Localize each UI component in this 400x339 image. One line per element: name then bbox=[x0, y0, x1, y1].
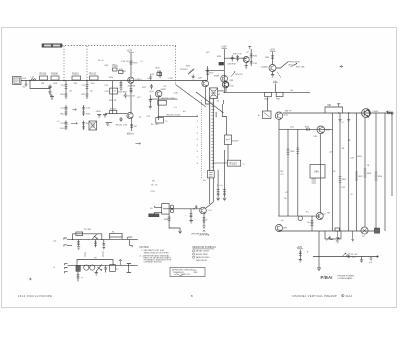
ground delay col r1 bbox=[216, 198, 220, 201]
resistor R1017 col2 row1 bbox=[82, 81, 89, 100]
junction dot c bbox=[86, 80, 87, 81]
junction c bus bbox=[224, 92, 225, 93]
label DELAY LINE boxed bbox=[149, 214, 159, 217]
svg-text:DATE 4-12: DATE 4-12 bbox=[181, 273, 190, 276]
svg-text:PRECISION: PRECISION bbox=[196, 260, 208, 262]
terminal row2 left bbox=[65, 264, 68, 274]
transistor Q1212 arrow bbox=[96, 265, 102, 272]
shield dotted delay bbox=[201, 100, 203, 178]
resistor R1015c bbox=[119, 81, 122, 91]
svg-text:R+ C+: R+ C+ bbox=[217, 185, 224, 187]
transistor Q1048 bbox=[362, 109, 371, 118]
diode CR1041 marks bbox=[386, 110, 390, 113]
svg-text:CR40: CR40 bbox=[373, 111, 379, 113]
wire c top row bbox=[224, 57, 247, 59]
ground stage2 gnd bbox=[149, 103, 152, 109]
marker diamond top right bbox=[340, 66, 343, 68]
terminal row1 left bbox=[64, 238, 67, 246]
transistor Q1034 bbox=[222, 81, 228, 87]
varistor arrow bbox=[231, 72, 235, 77]
svg-text:TK 330: TK 330 bbox=[84, 229, 92, 231]
svg-text:R1006: R1006 bbox=[40, 74, 47, 76]
transistor Q1033 bbox=[221, 75, 228, 82]
resistor on bus R1135 bbox=[335, 228, 339, 231]
capacitor C1137 bbox=[336, 231, 339, 243]
resistor stack row3 col1 bbox=[61, 121, 68, 131]
capacitor C1011 bbox=[112, 66, 119, 71]
resistor stack row3 col2 bbox=[82, 121, 85, 131]
svg-text:R18 453: R18 453 bbox=[118, 92, 127, 94]
terminal row2 right bbox=[127, 264, 134, 273]
resistor R1053 col365 bbox=[364, 169, 372, 177]
svg-text:R1016 1.5K: R1016 1.5K bbox=[124, 96, 136, 98]
svg-text:CURRENT SUP BD.: CURRENT SUP BD. bbox=[144, 262, 163, 264]
wire col v392 bbox=[391, 113, 393, 196]
resistor R1216 below bbox=[77, 271, 84, 281]
resistor R1024 bbox=[157, 71, 162, 76]
junction circle small bbox=[298, 216, 302, 220]
capacitor col348 under W1 bbox=[347, 120, 350, 121]
svg-text:C13 .05: C13 .05 bbox=[121, 61, 129, 63]
resistor R1130 drop bbox=[308, 216, 314, 231]
svg-text:R1012: R1012 bbox=[90, 74, 97, 76]
wire right main W1 bbox=[283, 112, 392, 114]
resistor R1204 below bbox=[77, 239, 80, 246]
wire stage2 vert bbox=[158, 96, 160, 120]
wire delay right rail bbox=[222, 100, 226, 135]
label legend row1 bbox=[193, 250, 210, 253]
ground R1128 gnd bbox=[169, 224, 182, 234]
shield label box INPUT ATTEN bbox=[42, 44, 62, 47]
wire row1 main bbox=[67, 239, 138, 245]
svg-text:+5V: +5V bbox=[206, 52, 210, 54]
wire e collector right bbox=[276, 61, 289, 68]
wire e4 drop to box bbox=[267, 110, 269, 111]
junction dots row1 bbox=[72, 239, 73, 240]
resistor R1041 below bus bbox=[276, 92, 283, 100]
wire right W2 bbox=[279, 128, 333, 130]
terminal row1 right bbox=[128, 237, 133, 247]
resistor R1044 on W2 bbox=[305, 127, 310, 131]
marker plus bottom bbox=[29, 278, 32, 281]
resistor R1203 loop2 bbox=[110, 231, 122, 237]
resistor R1036 bbox=[271, 56, 274, 59]
svg-text:M6 TP: M6 TP bbox=[285, 110, 292, 112]
shield dashed drop 3 bbox=[175, 46, 177, 85]
inductor L1014 bbox=[31, 79, 36, 81]
wire delay q-line bbox=[215, 112, 217, 117]
transistor Q1024 bbox=[149, 91, 162, 98]
resistor R1021 bbox=[110, 109, 118, 114]
wire col v348 bbox=[348, 113, 350, 231]
wire delay col r2 bbox=[224, 150, 226, 198]
wire e drop x267 bbox=[267, 97, 269, 110]
wire col v340 bbox=[339, 113, 341, 231]
svg-text:Q1036: Q1036 bbox=[261, 67, 268, 69]
svg-text:SEMICONDUCTOR TYPES: SEMICONDUCTOR TYPES bbox=[144, 252, 170, 254]
testpoint TP1032 bbox=[337, 104, 340, 107]
svg-text:R37 10K: R37 10K bbox=[296, 67, 305, 69]
resistor R1128 bbox=[164, 214, 171, 224]
resistor R1201 on loop bbox=[76, 229, 92, 235]
resistor R1051 col340 bbox=[339, 177, 347, 183]
svg-text:R19 1K: R19 1K bbox=[109, 100, 117, 102]
svg-text:R+ C+: R+ C+ bbox=[98, 60, 105, 62]
svg-text:+12V: +12V bbox=[127, 50, 133, 53]
svg-text:B1027: B1027 bbox=[232, 141, 239, 143]
shield dashed outline top bbox=[62, 45, 176, 47]
svg-text:2N39: 2N39 bbox=[161, 89, 167, 91]
terminal pickoff stubs bbox=[154, 206, 161, 214]
wire col v288 bbox=[287, 129, 289, 216]
connector J1014 input box bbox=[13, 77, 21, 85]
box U1046 bbox=[310, 165, 325, 179]
transistor Q1045 bbox=[317, 126, 330, 134]
wire output row y256 bbox=[313, 256, 379, 258]
wire stage2 out row bbox=[150, 98, 177, 100]
arrow bracket a bbox=[326, 237, 330, 241]
resistor R1027 top bbox=[206, 66, 209, 80]
wire col v320 bbox=[319, 134, 321, 213]
wire stage1 emitter bbox=[130, 83, 132, 112]
svg-text:R34 1K: R34 1K bbox=[236, 74, 244, 76]
svg-text:ALLEN TRIM: ALLEN TRIM bbox=[196, 253, 208, 256]
label titleblock right bbox=[292, 294, 353, 297]
capacitor stack c2 row2 col1 bbox=[61, 105, 68, 116]
svg-text:R1025 L1025: R1025 L1025 bbox=[162, 98, 176, 100]
transistor Q1031 bbox=[243, 57, 249, 63]
wire B1027 down bbox=[227, 145, 229, 161]
ground Q1036 gnd bbox=[271, 72, 274, 78]
svg-text:4314 OSCILLOSCOPE: 4314 OSCILLOSCOPE bbox=[18, 295, 52, 298]
box R1018 left bbox=[97, 115, 107, 118]
shield dashed drop 2 bbox=[86, 46, 88, 80]
ground stage2 gnd2 bbox=[192, 75, 195, 79]
wire bottom bus y231 bbox=[278, 230, 380, 232]
shield dashed drop 1 bbox=[63, 46, 65, 80]
transistor Q1027 bbox=[202, 80, 209, 87]
wire stage1 rail bbox=[130, 53, 132, 77]
wire mid bus y92 bbox=[224, 91, 311, 93]
capacitor C1213 bbox=[104, 265, 107, 272]
svg-text:+12V: +12V bbox=[221, 46, 227, 49]
transistor Q1211 bbox=[90, 265, 95, 270]
svg-text:TP1027: TP1027 bbox=[229, 162, 238, 165]
transistor Q1201 flat bbox=[92, 234, 98, 240]
svg-text:+2V: +2V bbox=[285, 192, 289, 194]
resistor R1129 bbox=[185, 209, 192, 221]
resistor R1127 bbox=[203, 214, 208, 226]
junction dots stage2 bbox=[207, 69, 209, 71]
capacitor C1023 bbox=[150, 84, 153, 89]
svg-text:+R20: +R20 bbox=[96, 111, 102, 113]
svg-text:R1008: R1008 bbox=[51, 74, 58, 76]
connector blob dark bbox=[374, 228, 379, 233]
svg-text:R31 C31: R31 C31 bbox=[233, 54, 242, 56]
junction dot b bbox=[63, 80, 64, 81]
stamp box bbox=[170, 268, 205, 277]
wire delay box out bbox=[218, 90, 224, 92]
wire col v376 bbox=[375, 113, 377, 228]
svg-text:R1026 C1026: R1026 C1026 bbox=[167, 114, 181, 116]
transistor Q1023 bbox=[127, 113, 143, 119]
capacitor C1021 bbox=[116, 117, 128, 127]
capacitor C1017 bbox=[124, 93, 127, 99]
capacitor C1129 pair bbox=[193, 206, 197, 210]
svg-text:1.5K: 1.5K bbox=[174, 93, 179, 95]
transistor Q1133 bbox=[316, 213, 326, 220]
svg-text:Q1014: Q1014 bbox=[135, 79, 142, 81]
wire col v356 bbox=[356, 113, 358, 231]
resistor delay col r2 bbox=[223, 190, 226, 195]
wire v352 drop bbox=[351, 231, 354, 242]
capacitor C1022s bbox=[149, 75, 152, 81]
capacitor stack c2 row2 col2 bbox=[82, 105, 91, 116]
resistor R1052 col356 bbox=[355, 172, 363, 180]
junction dot a bbox=[29, 80, 30, 81]
ground Q1127 gnd bbox=[202, 226, 205, 232]
svg-text:J10: J10 bbox=[15, 80, 20, 83]
bracket below bus bbox=[325, 231, 341, 239]
resistor R1031 bbox=[233, 54, 242, 62]
svg-text:TP1024: TP1024 bbox=[180, 69, 188, 71]
transistor Q1043 bbox=[275, 112, 288, 119]
ground R1129 gnd bbox=[189, 221, 193, 224]
ground stage1 gnd pair bbox=[106, 123, 113, 126]
svg-text:P.O: P.O bbox=[352, 257, 356, 259]
capacitor C1206 below bbox=[102, 239, 105, 250]
resistor below U1046 bbox=[312, 179, 317, 183]
ground C1009 gnd bbox=[48, 92, 51, 94]
wire row1 loop2 bbox=[110, 235, 122, 239]
wire row2 loop bbox=[77, 260, 113, 266]
box C1214 bbox=[110, 265, 120, 272]
svg-text:R1010: R1010 bbox=[72, 74, 79, 76]
resistor R1032 bbox=[250, 49, 258, 66]
resistor ticks col288 bbox=[287, 149, 290, 154]
svg-text:2N3904: 2N3904 bbox=[128, 86, 136, 88]
loop M6 bbox=[325, 104, 343, 113]
ground Q1212 gnd bbox=[95, 271, 98, 275]
arrow output a bbox=[342, 253, 346, 256]
svg-text:CHANNEL VERTICAL PREAMP: CHANNEL VERTICAL PREAMP bbox=[292, 295, 337, 298]
wire col v279 bbox=[278, 119, 280, 216]
svg-text:TP36 2N39: TP36 2N39 bbox=[289, 62, 301, 64]
stub left low bbox=[330, 236, 333, 239]
resistor R1006 bbox=[40, 76, 48, 80]
wire c mid row bbox=[205, 69, 224, 71]
junction dots W1 bbox=[338, 112, 339, 113]
svg-text:1A 14: 1A 14 bbox=[346, 295, 353, 298]
transistor Q1036 bbox=[261, 65, 276, 72]
svg-text:TP+: TP+ bbox=[152, 181, 157, 183]
resistor R1054 col376 bbox=[375, 172, 383, 180]
inductor L1030 dark box bbox=[219, 62, 224, 65]
label legend row2 bbox=[193, 253, 208, 256]
ground R1204 gnd bbox=[77, 247, 80, 250]
svg-text:R+ 75: R+ 75 bbox=[152, 185, 159, 187]
box C1126 below wire bbox=[156, 118, 164, 124]
svg-text:CONN BOARD: CONN BOARD bbox=[338, 277, 353, 280]
wire stage1 base row bbox=[105, 113, 127, 115]
resistor delay col r1 bbox=[217, 190, 220, 195]
wire v319 low bbox=[318, 231, 320, 268]
delay line taps bbox=[211, 103, 214, 167]
resistor R1012 bbox=[90, 76, 99, 80]
svg-text:C1011: C1011 bbox=[112, 66, 119, 68]
label TP1027 boxed bbox=[213, 160, 240, 166]
box R1019 left bbox=[104, 81, 127, 114]
label Y mark bbox=[119, 259, 121, 265]
resistor R1205 below bbox=[94, 239, 97, 247]
svg-text:METAL OXIDE: METAL OXIDE bbox=[196, 250, 210, 253]
box delay termination bbox=[207, 171, 214, 178]
svg-text:U46: U46 bbox=[314, 170, 319, 174]
svg-text:C30 R30: C30 R30 bbox=[227, 64, 236, 66]
label legend title bbox=[192, 247, 216, 249]
resistor R1013 rail bbox=[129, 61, 138, 65]
terminal right edge circle bbox=[391, 112, 393, 114]
ground delay col r2 bbox=[223, 198, 227, 201]
diode CR1042 right edge bbox=[387, 112, 391, 114]
svg-text:NOTES:: NOTES: bbox=[140, 245, 150, 249]
box pickoff bbox=[162, 204, 174, 215]
ticks R1016 bbox=[130, 89, 133, 92]
resistor R1011 bbox=[119, 69, 124, 74]
box B1027 bbox=[225, 135, 240, 145]
resistor R1026 slant bbox=[188, 69, 194, 75]
box attenuator A1 crossed bbox=[89, 121, 97, 130]
resistor R1015 col1 row1 bbox=[61, 81, 68, 100]
wire col v385 bbox=[384, 113, 386, 231]
resistor ticks col298 bbox=[296, 148, 299, 153]
resistor R1138 bbox=[299, 250, 309, 260]
ground v319 gnd bbox=[317, 268, 321, 271]
svg-text:2N39: 2N39 bbox=[214, 76, 220, 78]
wire col v332 bbox=[332, 113, 334, 231]
circle output z bbox=[348, 256, 350, 258]
shield diagonal A bbox=[176, 85, 206, 107]
resistor R1022 emitter bbox=[130, 119, 137, 131]
wire feedback loop bbox=[30, 81, 50, 89]
ground R1138 gnd bbox=[299, 260, 302, 263]
ground output gnd bbox=[360, 257, 363, 263]
wire row1 loop bbox=[73, 234, 102, 240]
capacitor col340 under W1 bbox=[338, 120, 341, 121]
transistor Q1127 bbox=[200, 207, 213, 214]
arrow bracket b bbox=[336, 238, 340, 242]
svg-text:R+ +5V: R+ +5V bbox=[151, 124, 159, 126]
svg-text:P/BAI: P/BAI bbox=[321, 275, 333, 280]
transistor Q1136 crt bbox=[361, 227, 368, 238]
svg-text:+12V: +12V bbox=[270, 49, 276, 52]
wire main input bus y80.5 bbox=[21, 80, 207, 82]
wire e dashed emitter bbox=[277, 72, 281, 78]
resistor R1022s stage2 bbox=[159, 71, 162, 79]
testpoint arrow mid bbox=[136, 143, 141, 145]
wire e drop to bus bbox=[275, 84, 277, 93]
svg-text:(PROBE POWER): (PROBE POWER) bbox=[192, 234, 209, 236]
wire delay col r1 bbox=[217, 170, 219, 198]
capacitor output c bbox=[370, 257, 373, 261]
terminal output end bbox=[377, 256, 379, 258]
box C1210 dark bbox=[76, 265, 81, 271]
wire e rail bbox=[272, 52, 274, 65]
box E1042 bbox=[258, 111, 271, 118]
testpoint TP1031 bbox=[248, 46, 251, 49]
transistor Q1132 bbox=[276, 225, 289, 232]
svg-text:R1021 1.5K: R1021 1.5K bbox=[116, 125, 128, 127]
wire stage2 lower row bbox=[158, 115, 198, 117]
svg-text:+12V: +12V bbox=[297, 246, 303, 249]
transistor Q1014 bbox=[128, 77, 143, 88]
resistor R1010 bbox=[72, 76, 81, 80]
wire c rail bbox=[223, 49, 225, 92]
resistor R1008 bbox=[51, 76, 59, 80]
capacitor C1009 bbox=[48, 86, 51, 92]
arrow trim row2 bbox=[73, 109, 77, 111]
resistor R1040 below bus bbox=[265, 92, 272, 100]
wire delay cont down bbox=[206, 178, 213, 208]
arrow trim row3 bbox=[71, 122, 78, 124]
label legend row3 bbox=[193, 256, 212, 259]
svg-text:WIRE WOUND +: WIRE WOUND + bbox=[196, 257, 212, 259]
wire row2 main bbox=[68, 264, 138, 266]
wire delay line left bbox=[209, 98, 211, 170]
wire col v298 bbox=[297, 129, 299, 216]
box delay driver crossed bbox=[209, 88, 221, 98]
wire botmid row bbox=[163, 208, 200, 210]
ground stack gnd1 bbox=[50, 95, 54, 100]
svg-text:R1021: R1021 bbox=[110, 109, 117, 111]
box L1025 R1025 bbox=[158, 98, 176, 105]
shield diagonal B bbox=[196, 92, 224, 113]
svg-text:+2V: +2V bbox=[329, 152, 333, 154]
svg-text:L.R +5V: L.R +5V bbox=[350, 254, 359, 256]
svg-text:DELAY: DELAY bbox=[149, 214, 157, 217]
wire Q1027 emitter bbox=[205, 87, 209, 104]
wire col v365 bbox=[364, 117, 366, 226]
svg-text:CRT: CRT bbox=[283, 227, 288, 229]
ground Q1031 gnd bbox=[245, 63, 248, 69]
wire y216 row bbox=[278, 215, 320, 217]
capacitor C1031 bbox=[231, 55, 234, 62]
wire c emitter down bbox=[225, 88, 227, 93]
ground input gnd bbox=[25, 81, 28, 87]
svg-text:1M: 1M bbox=[41, 83, 44, 85]
arrow output b bbox=[346, 253, 350, 256]
transistor Q1210 bbox=[84, 265, 89, 270]
svg-text:(600+): (600+) bbox=[127, 134, 134, 136]
varistor arrow e bbox=[291, 63, 298, 67]
wire delay line right bbox=[212, 98, 214, 170]
